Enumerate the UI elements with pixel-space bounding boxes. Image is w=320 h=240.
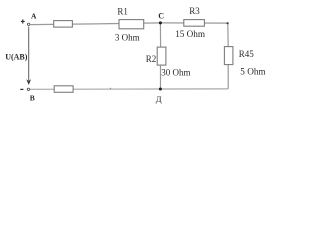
- svg-text:A: A: [31, 12, 37, 21]
- resistor R1: [119, 20, 144, 29]
- svg-text:30 Ohm: 30 Ohm: [161, 67, 190, 77]
- resistor R45 (vertical): [224, 47, 233, 65]
- svg-text:R2: R2: [146, 54, 157, 64]
- svg-text:R45: R45: [239, 49, 255, 59]
- svg-text:R3: R3: [189, 6, 200, 16]
- top-right corner junction: [227, 22, 229, 24]
- wire: bottom horizontal B to bottom-right corner: [30, 88, 228, 90]
- wire: right vertical branch: [227, 23, 229, 89]
- voltage arrow U(AB): [26, 27, 31, 85]
- svg-text:15 Ohm: 15 Ohm: [175, 29, 205, 39]
- stray mark on bottom wire: [110, 88, 111, 89]
- svg-text:U(AB): U(AB): [5, 52, 28, 61]
- resistor R3: [184, 20, 205, 27]
- node D junction dot: [159, 88, 162, 91]
- svg-text:B: B: [30, 94, 35, 103]
- terminal A (open circle): [27, 23, 29, 25]
- minus sign at terminal B: [20, 88, 23, 90]
- svg-text:5 Ohm: 5 Ohm: [240, 67, 265, 77]
- svg-text:R1: R1: [117, 7, 128, 17]
- svg-text:Д: Д: [156, 94, 162, 104]
- terminal B (open circle): [27, 88, 29, 90]
- wire: middle vertical branch C to D: [159, 23, 161, 89]
- svg-text:C: C: [158, 12, 164, 21]
- resistor (unlabeled, top wire): [54, 21, 73, 28]
- plus sign at terminal A: [21, 19, 25, 23]
- svg-text:3 Ohm: 3 Ohm: [115, 33, 140, 43]
- node C junction dot: [159, 21, 162, 24]
- wire: top horizontal A to top-right corner: [30, 23, 228, 25]
- resistor (unlabeled, bottom wire): [54, 86, 73, 93]
- resistor R2 (vertical): [157, 47, 166, 65]
